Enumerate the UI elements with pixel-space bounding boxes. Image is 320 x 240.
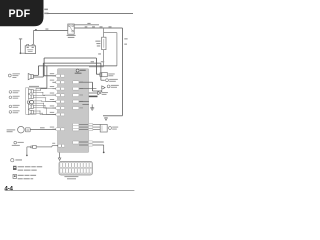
svg-text:4-4: 4-4 <box>4 185 13 192</box>
component label C1 <box>101 63 118 82</box>
cigar lighter L1 <box>18 126 25 133</box>
wire label IG3 <box>100 26 112 27</box>
wire SP1 minus <box>33 76 43 78</box>
speaker wiring harness <box>33 89 56 115</box>
head unit left pin row 5 <box>50 99 65 103</box>
wire label B1 <box>45 29 48 30</box>
page number 4-4 <box>4 185 13 192</box>
wire over1 drop <box>44 58 56 76</box>
footer rule <box>5 190 135 192</box>
speaker SP4 label <box>9 105 20 108</box>
speaker SP3 label <box>9 96 20 99</box>
head unit left pin row 6 <box>50 105 65 109</box>
head unit middle pin row 2 <box>73 87 83 90</box>
wire branch to right <box>104 33 117 66</box>
battery BATT <box>25 44 35 53</box>
speaker SP5 <box>28 110 33 115</box>
head unit left pin row B <box>36 143 64 147</box>
svg-text:PDF: PDF <box>9 8 31 20</box>
wire label ACC <box>87 23 90 24</box>
speaker SP1 label <box>8 73 19 78</box>
component label C2 <box>12 141 24 146</box>
antenna ANT1 <box>93 85 119 92</box>
head unit middle pin row 3 <box>73 94 83 97</box>
note item 1 <box>13 166 42 171</box>
head unit left pin row 8 <box>50 127 65 131</box>
connector arrow down <box>58 153 61 161</box>
connector P1 label <box>109 127 119 130</box>
speaker SP2 label <box>9 90 20 93</box>
head unit left pin row 2 <box>50 80 65 84</box>
head unit middle pin row 4 <box>73 100 83 103</box>
wire fuse out <box>89 50 104 67</box>
head unit UNIT <box>57 69 88 153</box>
speaker SP2 <box>28 89 33 94</box>
connector pinout caption <box>64 176 78 179</box>
wire over2 label <box>91 61 105 62</box>
ignition switch SW1 <box>67 24 76 38</box>
head unit middle pin row trio 1 <box>73 123 79 126</box>
head unit middle pin row trio 2 <box>73 126 79 129</box>
head unit left pin row 3 <box>50 86 65 90</box>
wire battery positive <box>33 31 67 45</box>
note L mark <box>11 159 22 162</box>
PDF badge <box>0 0 44 26</box>
wire out row4 <box>79 101 89 103</box>
wire SP1 plus <box>33 74 38 76</box>
wire out row5 <box>82 103 88 105</box>
wire label IG1 <box>85 26 88 27</box>
wire B+ top <box>47 13 133 15</box>
head unit left pin row 4 <box>50 93 65 97</box>
plug P2 <box>25 128 30 132</box>
connector P3 <box>26 145 36 156</box>
speaker SP4 <box>28 104 33 109</box>
head unit header <box>75 69 86 74</box>
wire P2 label <box>40 127 45 128</box>
wire right bottom route <box>103 115 123 117</box>
fuse label 15A <box>95 41 100 47</box>
note item 2 <box>13 174 36 179</box>
connector pinout view <box>59 161 92 175</box>
head unit middle pin row 5 <box>73 107 83 110</box>
wire P2 to unit <box>30 128 56 130</box>
wire thick shield <box>89 95 98 97</box>
tweeter TW1 <box>28 100 34 104</box>
antenna amp A1 <box>100 73 115 77</box>
ground G1 <box>19 39 22 54</box>
speaker group label <box>29 86 39 87</box>
wire right drop1 <box>92 82 94 91</box>
wire over3 <box>38 65 117 67</box>
connector P1 <box>100 124 107 132</box>
head unit middle pin row pair <box>73 141 79 144</box>
wire IG <box>74 27 122 29</box>
head unit left pin row 1 <box>50 73 65 77</box>
wire out row1 <box>79 81 92 83</box>
wire over2 <box>43 62 101 64</box>
wire fuse feed <box>103 28 105 37</box>
speaker SP5 label <box>9 110 20 113</box>
fuse F1 RADIO <box>102 37 106 49</box>
head unit middle pin row 1 <box>73 81 83 84</box>
wire right trunk <box>122 28 124 116</box>
wire out row2 <box>79 88 96 90</box>
speaker SP3 <box>28 94 33 99</box>
cigar lighter label <box>7 129 16 132</box>
wire label 2B <box>124 38 127 44</box>
wire over1 <box>44 57 96 59</box>
wire to amp <box>96 58 99 74</box>
wire shield pair <box>79 141 105 153</box>
head unit left pin row 7 <box>50 112 65 116</box>
wire over2 drop <box>42 63 44 77</box>
wire battery negative <box>21 52 26 54</box>
wire over3 drop <box>37 66 39 75</box>
wire plug leads <box>79 124 100 131</box>
speaker group box <box>26 88 36 115</box>
speaker SP1 <box>28 74 33 80</box>
wire label TO BACKUP <box>44 9 48 15</box>
speaker group bracket <box>36 66 47 88</box>
arrow down A <box>105 118 108 121</box>
junction tick <box>35 29 37 30</box>
ground G2 <box>90 104 94 110</box>
antenna ANT2 arrow <box>89 92 108 95</box>
wire ACC <box>74 24 99 26</box>
wire label IG2 <box>92 26 95 27</box>
head unit middle pin row trio 3 <box>73 128 79 131</box>
